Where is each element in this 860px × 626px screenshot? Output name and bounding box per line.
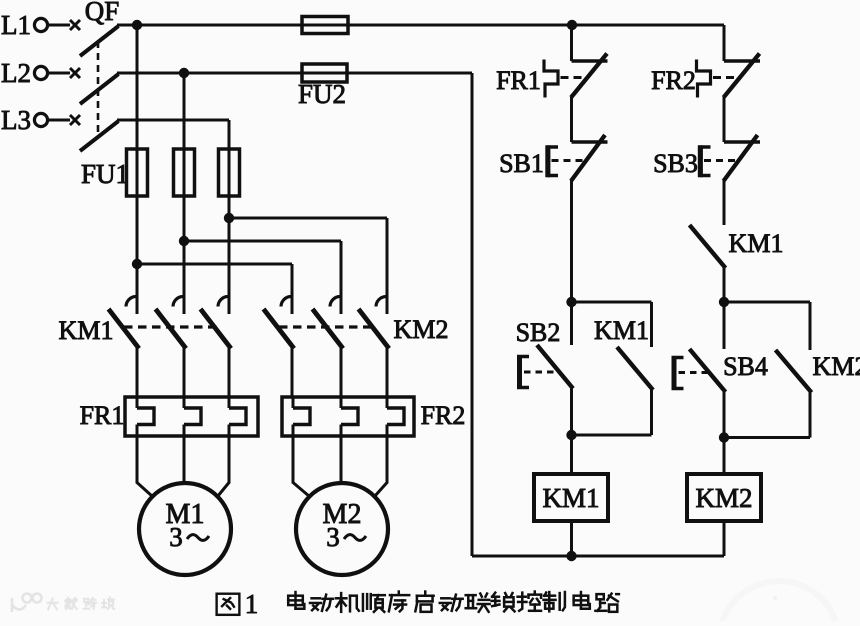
svg-text:SB1: SB1 bbox=[499, 149, 544, 178]
svg-text:FU2: FU2 bbox=[298, 79, 346, 109]
svg-text:KM1: KM1 bbox=[729, 229, 784, 258]
svg-text:FR2: FR2 bbox=[651, 66, 696, 95]
svg-text:SB4: SB4 bbox=[723, 352, 768, 381]
svg-text:KM1: KM1 bbox=[594, 316, 649, 345]
svg-text:KM2: KM2 bbox=[695, 483, 752, 513]
svg-text:L1: L1 bbox=[1, 10, 31, 40]
svg-text:L2: L2 bbox=[1, 58, 31, 88]
svg-text:FR1: FR1 bbox=[496, 66, 541, 95]
svg-text:SB2: SB2 bbox=[516, 318, 561, 347]
svg-text:KM2: KM2 bbox=[394, 315, 449, 344]
svg-text:1: 1 bbox=[245, 589, 259, 619]
svg-text:3: 3 bbox=[169, 522, 183, 552]
svg-text:QF: QF bbox=[85, 0, 120, 26]
svg-text:FU1: FU1 bbox=[81, 159, 129, 189]
svg-text:KM2: KM2 bbox=[813, 352, 860, 381]
svg-text:KM1: KM1 bbox=[542, 483, 599, 513]
svg-text:SB3: SB3 bbox=[653, 149, 698, 178]
svg-text:KM1: KM1 bbox=[59, 316, 114, 345]
svg-text:3: 3 bbox=[326, 522, 340, 552]
svg-text:L3: L3 bbox=[1, 105, 31, 135]
svg-text:FR2: FR2 bbox=[421, 401, 466, 430]
svg-text:FR1: FR1 bbox=[80, 401, 125, 430]
